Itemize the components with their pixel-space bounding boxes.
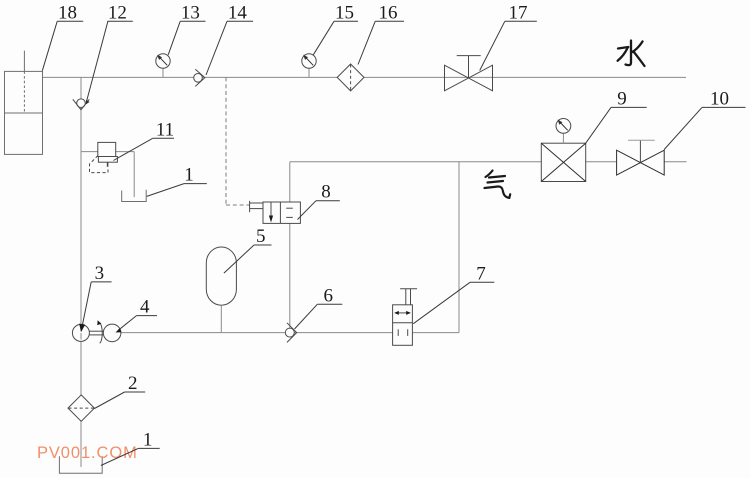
svg-text:1: 1 bbox=[143, 429, 153, 450]
svg-text:8: 8 bbox=[321, 182, 331, 203]
svg-text:1: 1 bbox=[184, 165, 194, 186]
filter 2 bbox=[68, 395, 94, 421]
svg-text:4: 4 bbox=[140, 297, 150, 318]
label 17 bbox=[480, 3, 537, 71]
label 2 bbox=[95, 373, 146, 409]
label 15 bbox=[313, 3, 358, 55]
svg-text:5: 5 bbox=[256, 226, 266, 247]
check valve 12 bbox=[73, 99, 90, 110]
svg-text:2: 2 bbox=[128, 373, 138, 394]
label 16 bbox=[358, 3, 404, 65]
wire left vertical supply line bbox=[80, 77, 82, 467]
svg-text:13: 13 bbox=[181, 3, 200, 24]
label 4 bbox=[116, 297, 158, 333]
svg-text:12: 12 bbox=[108, 3, 127, 24]
label 7 bbox=[413, 263, 494, 323]
svg-text:11: 11 bbox=[156, 119, 174, 140]
wire pilot dashed line from pipe to valve 8 bbox=[226, 77, 250, 205]
unloader component 11 bbox=[90, 142, 118, 172]
wire branch to unloader 11 bbox=[81, 152, 134, 198]
svg-text:17: 17 bbox=[509, 3, 528, 24]
tank 1 (bottom) bbox=[59, 456, 102, 473]
label 1 bottom bbox=[101, 429, 160, 465]
label 9 bbox=[586, 88, 647, 143]
text 水 (water) drawn strokes bbox=[618, 41, 645, 67]
pressure gauge 13 bbox=[156, 54, 170, 78]
hand valve 7 bbox=[393, 289, 418, 346]
filter 16 bbox=[337, 64, 364, 91]
cylinder tank 18 bbox=[5, 51, 43, 155]
svg-text:16: 16 bbox=[379, 3, 398, 24]
pneumatic box 9 bbox=[541, 143, 585, 181]
label 10 bbox=[664, 88, 745, 149]
svg-text:7: 7 bbox=[476, 263, 486, 284]
label 13 bbox=[168, 3, 205, 55]
wire right vertical riser bbox=[458, 162, 460, 333]
label 3 bbox=[79, 263, 111, 332]
pump 3 bbox=[72, 324, 89, 341]
svg-text:14: 14 bbox=[228, 3, 248, 24]
label 14 bbox=[206, 3, 253, 76]
svg-text:10: 10 bbox=[710, 88, 729, 109]
shaft coupling bbox=[90, 320, 104, 343]
label 1 upper bbox=[147, 165, 207, 197]
svg-text:3: 3 bbox=[95, 263, 105, 284]
wire main water pipe bbox=[43, 76, 687, 78]
svg-text:6: 6 bbox=[324, 285, 334, 306]
label 8 bbox=[298, 182, 340, 220]
directional valve 8 bbox=[250, 201, 301, 224]
check valve 6 bbox=[285, 323, 296, 343]
wire valve8 top riser bbox=[289, 162, 291, 202]
globe valve 17 bbox=[445, 56, 493, 91]
wire pneumatic line bbox=[290, 161, 687, 163]
check valve 14 bbox=[194, 69, 205, 86]
label 6 bbox=[295, 285, 343, 329]
globe valve 10 bbox=[617, 140, 665, 175]
svg-text:9: 9 bbox=[617, 88, 627, 109]
label 11 bbox=[113, 119, 174, 160]
accumulator 5 bbox=[206, 247, 236, 333]
label 18 bbox=[42, 3, 83, 71]
tank 1 (upper) bbox=[122, 190, 147, 202]
label 5 bbox=[224, 226, 272, 273]
pressure gauge on 9 bbox=[556, 119, 571, 144]
svg-text:15: 15 bbox=[335, 3, 354, 24]
pressure gauge 15 bbox=[302, 54, 316, 78]
svg-text:PV001.COM: PV001.COM bbox=[37, 444, 138, 462]
text 气 (gas) drawn strokes bbox=[485, 171, 511, 198]
wire pump discharge line bbox=[121, 332, 459, 334]
label 12 bbox=[86, 3, 133, 105]
motor 4 bbox=[103, 324, 121, 342]
wire valve8 bottom riser bbox=[289, 223, 291, 328]
svg-text:18: 18 bbox=[58, 3, 77, 24]
